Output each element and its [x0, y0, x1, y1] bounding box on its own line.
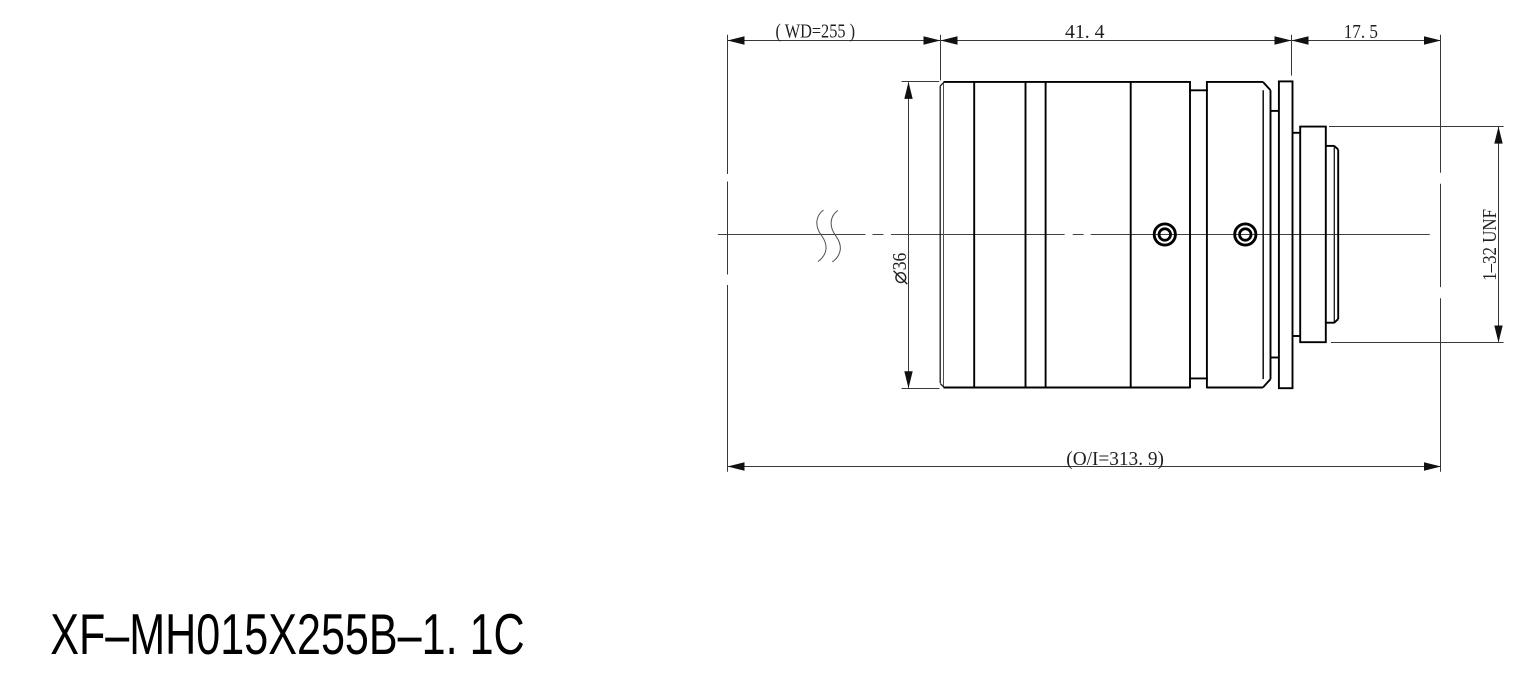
- spacer ring: [1293, 133, 1301, 336]
- rear chamfer bottom: [1263, 379, 1271, 387]
- extension line, lens front face: [940, 35, 942, 81]
- lens front barrel outline: [940, 82, 1190, 388]
- thread root line: [1333, 147, 1335, 322]
- break squiggle (object plane break): [817, 210, 841, 262]
- flange plate: [1278, 81, 1293, 388]
- svg-text:41. 4: 41. 4: [1065, 21, 1105, 43]
- rear chamfer top: [1263, 82, 1271, 90]
- rear top edge: [1207, 81, 1263, 83]
- barrel ring division 3: [1045, 82, 1047, 387]
- set screw 2: [1235, 224, 1256, 245]
- arrow 41.4 left: [941, 36, 958, 44]
- arrow phi36 up: [904, 82, 912, 99]
- centerline (optical axis): [718, 234, 1430, 236]
- arrow WD left: [728, 36, 745, 44]
- svg-text:1–32 UNF: 1–32 UNF: [1479, 209, 1501, 281]
- arrow WD right: [924, 36, 941, 44]
- phi36 extension tick bottom: [902, 388, 940, 390]
- barrel ring division 2: [1025, 82, 1027, 387]
- top dimension line: [728, 40, 1442, 42]
- barrel ring division 4: [1130, 82, 1132, 387]
- front chamfer top: [940, 82, 944, 86]
- 1-32 UNF extension tick top: [1329, 126, 1504, 128]
- svg-text:XF–MH015X255B–1. 1C: XF–MH015X255B–1. 1C: [50, 603, 525, 667]
- rear bottom edge: [1207, 387, 1263, 389]
- front chamfer bottom: [940, 383, 944, 387]
- neck ring: [1271, 111, 1279, 358]
- arrow phi36 down: [904, 371, 912, 388]
- barrel bottom edge: [944, 387, 1191, 389]
- extension line, object plane (left, long-dash style): [727, 35, 729, 472]
- arrow 1-32 UNF up: [1494, 127, 1502, 144]
- mount cylinder: [1299, 127, 1326, 343]
- svg-text:(O/I=313. 9): (O/I=313. 9): [1066, 448, 1164, 470]
- rear end face: [1270, 90, 1272, 379]
- arrow 1-32 UNF down: [1494, 326, 1502, 343]
- front chamfer circle line: [943, 83, 945, 386]
- extension line, image plane (right, long-dash style): [1440, 35, 1442, 472]
- label phi36: [889, 253, 911, 284]
- rear chamfer circle line: [1262, 90, 1264, 379]
- set screw 1: [1154, 224, 1175, 245]
- barrel ring division 1: [973, 82, 975, 387]
- extension line, flange rear face: [1291, 35, 1293, 76]
- rear barrel section: [1207, 82, 1271, 388]
- thread section 1-32 UNF: [1326, 146, 1338, 323]
- 1-32 UNF dimension line: [1498, 127, 1500, 342]
- arrow 17.5 right: [1424, 36, 1441, 44]
- 1-32 UNF extension tick bottom: [1331, 342, 1504, 344]
- arrow O/I left: [728, 462, 745, 470]
- phi36 dimension line: [908, 82, 910, 388]
- barrel top edge: [944, 81, 1191, 83]
- svg-text:17. 5: 17. 5: [1344, 21, 1378, 43]
- groove ring: [1189, 81, 1208, 388]
- phi36 extension tick top: [902, 81, 940, 83]
- arrow 17.5 left: [1292, 36, 1309, 44]
- arrow O/I right: [1424, 462, 1441, 470]
- front face edge: [939, 86, 941, 383]
- bottom dimension line O/I: [728, 466, 1442, 468]
- svg-text:( WD=255 ): ( WD=255 ): [776, 21, 856, 43]
- arrow 41.4 right: [1275, 36, 1292, 44]
- svg-text:36: 36: [889, 253, 911, 270]
